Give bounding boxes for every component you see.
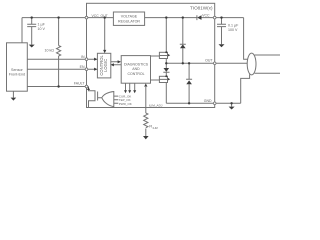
- svg-text:1 µF: 1 µF: [38, 22, 46, 26]
- svg-text:DIAGNOSTICS: DIAGNOSTICS: [124, 63, 149, 67]
- svg-text:GND: GND: [204, 99, 212, 103]
- svg-text:ILIM_ADJ: ILIM_ADJ: [149, 104, 163, 108]
- svg-text:LOGIC: LOGIC: [103, 59, 108, 72]
- svg-text:100 V: 100 V: [228, 28, 238, 32]
- svg-text:AND: AND: [132, 67, 140, 71]
- svg-text:TIO81W(x): TIO81W(x): [190, 6, 213, 11]
- svg-text:Sensor: Sensor: [11, 68, 23, 72]
- svg-text:VCC: VCC: [202, 13, 210, 17]
- svg-text:ILIM: ILIM: [153, 126, 158, 130]
- svg-text:Front-End: Front-End: [9, 73, 25, 77]
- svg-text:EN: EN: [80, 65, 85, 69]
- svg-text:CONTROL: CONTROL: [127, 72, 144, 76]
- svg-text:OUT: OUT: [205, 59, 213, 63]
- svg-text:PWR_OK: PWR_OK: [119, 102, 132, 106]
- svg-text:10 kΩ: 10 kΩ: [45, 49, 55, 53]
- svg-text:VOLTAGE: VOLTAGE: [121, 15, 138, 19]
- svg-text:REGULATOR: REGULATOR: [118, 20, 140, 24]
- svg-text:10 V: 10 V: [38, 27, 46, 31]
- svg-text:VCC_OUT: VCC_OUT: [92, 14, 108, 18]
- svg-text:0.1 µF: 0.1 µF: [228, 23, 239, 27]
- svg-text:IN: IN: [81, 55, 85, 59]
- svg-text:FAULT: FAULT: [74, 82, 85, 86]
